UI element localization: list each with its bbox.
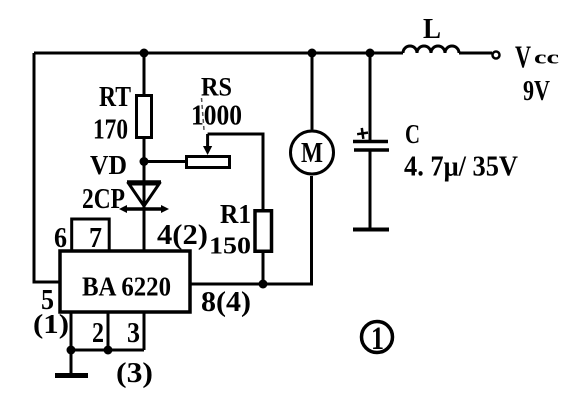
motor M	[291, 131, 334, 174]
wire RT to VD node	[143, 139, 146, 209]
wire VD node to RS pot	[144, 160, 185, 163]
wire pin2 bottom	[107, 312, 110, 350]
svg-text:(3): (3)	[116, 358, 153, 389]
wire RS label leader	[202, 98, 205, 130]
svg-text:V: V	[515, 39, 531, 75]
svg-text:6: 6	[54, 223, 67, 254]
wire IC pin8 to motor	[190, 176, 312, 284]
wire top to motor	[311, 53, 314, 130]
wire pin6-pin7 loop	[72, 219, 110, 251]
svg-text:(1): (1)	[33, 309, 69, 339]
svg-text:4. 7μ/ 35V: 4. 7μ/ 35V	[404, 152, 518, 183]
svg-text:170: 170	[93, 115, 128, 146]
svg-text:9V: 9V	[523, 75, 550, 107]
wire pin3 bottom	[143, 312, 146, 350]
wire diode to IC pin4	[143, 209, 146, 251]
node VD junction	[140, 157, 149, 166]
svg-text:RS: RS	[201, 73, 232, 102]
inductor L	[403, 46, 459, 53]
svg-text:1: 1	[371, 321, 384, 357]
wire top to capacitor	[369, 53, 372, 141]
wire wiper to R1	[208, 134, 263, 209]
ground	[55, 350, 88, 376]
svg-text:C: C	[405, 119, 420, 149]
svg-text:RT: RT	[99, 82, 131, 113]
figure number circle 1	[362, 322, 393, 353]
op-amp U1 BA6220 IC body	[60, 251, 190, 312]
wire coil to terminal	[459, 52, 492, 55]
node pin2 junction	[104, 346, 113, 355]
diode VD 2CP	[119, 182, 169, 213]
potentiometer RS	[187, 157, 230, 168]
node top-cap junction	[366, 49, 375, 58]
wire R1 to pin8 rail	[262, 253, 265, 284]
RS wiper arrow	[203, 134, 212, 155]
node Vcc terminal	[493, 52, 500, 59]
svg-text:3: 3	[127, 318, 140, 349]
wire top to RT	[143, 53, 146, 94]
svg-text:2: 2	[92, 318, 104, 349]
wire bottom rail	[71, 349, 144, 352]
ground cap bottom bar	[353, 228, 389, 232]
svg-text:VD: VD	[90, 150, 127, 180]
svg-text:M: M	[301, 138, 323, 169]
svg-text:R1: R1	[220, 199, 251, 229]
node top-RT junction	[140, 49, 149, 58]
svg-text:150: 150	[209, 234, 251, 260]
node top-motor junction	[308, 49, 317, 58]
wire capacitor to ground bar	[369, 150, 372, 228]
resistor RT	[137, 96, 152, 138]
wire left side vertical	[34, 53, 60, 282]
resistor R1	[255, 211, 272, 252]
wire top rail	[34, 52, 403, 55]
svg-text:L: L	[423, 13, 441, 45]
svg-text:BA 6220: BA 6220	[82, 272, 171, 302]
svg-text:4(2): 4(2)	[157, 220, 208, 251]
svg-text:1000: 1000	[191, 101, 242, 132]
node pin5 junction	[67, 346, 76, 355]
capacitor C	[353, 127, 389, 150]
svg-text:cc: cc	[534, 48, 559, 69]
svg-text:8(4): 8(4)	[201, 287, 251, 318]
svg-text:7: 7	[89, 223, 102, 254]
wire pin5 bottom	[70, 312, 73, 350]
node R1 junction	[259, 280, 268, 289]
svg-text:2CP: 2CP	[82, 184, 125, 215]
